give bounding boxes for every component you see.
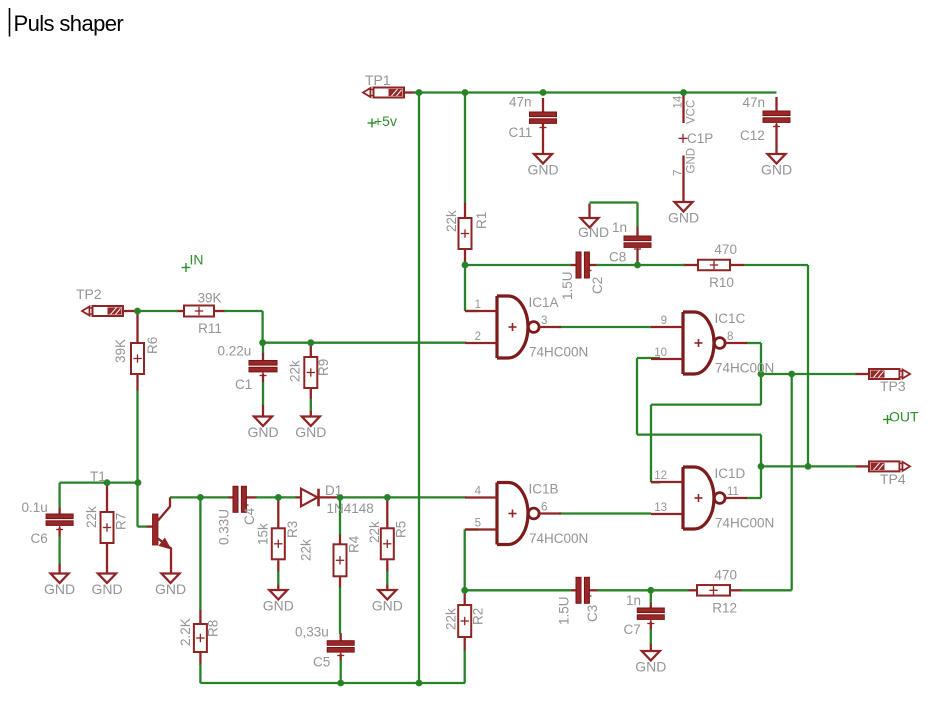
- svg-text:22k: 22k: [84, 506, 99, 528]
- svg-text:8: 8: [727, 331, 733, 343]
- svg-text:470: 470: [714, 242, 737, 257]
- svg-text:22k: 22k: [299, 539, 314, 561]
- svg-text:GND: GND: [91, 581, 122, 597]
- svg-text:0,33u: 0,33u: [295, 625, 329, 640]
- svg-text:GND: GND: [686, 148, 698, 174]
- svg-text:GND: GND: [295, 424, 326, 440]
- svg-text:GND: GND: [635, 659, 666, 675]
- svg-text:74HC00N: 74HC00N: [529, 531, 588, 546]
- svg-text:IC1A: IC1A: [529, 295, 559, 310]
- svg-text:R3: R3: [285, 521, 300, 538]
- svg-text:TP2: TP2: [76, 286, 102, 302]
- svg-text:C1P: C1P: [687, 131, 713, 146]
- svg-text:470: 470: [714, 568, 737, 583]
- svg-text:OUT: OUT: [889, 409, 919, 425]
- svg-text:GND: GND: [761, 162, 792, 178]
- svg-text:7: 7: [673, 170, 685, 176]
- svg-text:0.33U: 0.33U: [217, 509, 232, 545]
- svg-text:R12: R12: [712, 601, 737, 616]
- svg-text:GND: GND: [527, 162, 558, 178]
- svg-text:C12: C12: [740, 128, 765, 143]
- svg-text:R7: R7: [114, 513, 129, 530]
- svg-text:14: 14: [673, 95, 685, 108]
- svg-text:IC1B: IC1B: [529, 482, 559, 497]
- svg-text:GND: GND: [247, 424, 278, 440]
- svg-text:R6: R6: [145, 337, 160, 354]
- svg-text:C8: C8: [609, 250, 626, 265]
- svg-text:2: 2: [475, 331, 481, 343]
- svg-text:4: 4: [475, 486, 482, 498]
- svg-text:1n: 1n: [612, 220, 627, 235]
- svg-text:TP3: TP3: [880, 378, 906, 394]
- svg-text:2.2K: 2.2K: [178, 618, 193, 646]
- svg-text:74HC00N: 74HC00N: [529, 345, 588, 360]
- svg-text:1N4148: 1N4148: [327, 501, 374, 516]
- svg-text:Puls shaper: Puls shaper: [14, 11, 124, 36]
- svg-text:R8: R8: [206, 620, 221, 637]
- svg-text:R5: R5: [394, 521, 409, 538]
- svg-text:1.5U: 1.5U: [560, 271, 575, 300]
- svg-text:R2: R2: [471, 608, 486, 625]
- svg-text:11: 11: [727, 486, 739, 498]
- svg-text:22k: 22k: [444, 210, 459, 232]
- svg-text:R4: R4: [347, 535, 362, 553]
- svg-text:C4: C4: [242, 507, 257, 525]
- svg-text:1: 1: [475, 299, 481, 311]
- svg-text:GND: GND: [372, 598, 403, 614]
- svg-text:GND: GND: [578, 224, 609, 240]
- svg-text:C7: C7: [624, 622, 641, 637]
- svg-text:47n: 47n: [743, 95, 766, 110]
- svg-text:C5: C5: [313, 655, 330, 670]
- svg-text:22k: 22k: [288, 360, 303, 382]
- svg-text:12: 12: [654, 470, 667, 482]
- svg-text:GND: GND: [44, 581, 75, 597]
- svg-text:GND: GND: [263, 598, 294, 614]
- svg-text:GND: GND: [155, 581, 186, 597]
- svg-text:74HC00N: 74HC00N: [715, 516, 774, 531]
- svg-text:15k: 15k: [256, 523, 271, 545]
- svg-text:0.1u: 0.1u: [22, 500, 48, 515]
- svg-text:IC1D: IC1D: [715, 466, 746, 481]
- svg-text:6: 6: [541, 502, 547, 514]
- svg-text:13: 13: [654, 502, 667, 514]
- svg-text:D1: D1: [325, 483, 342, 498]
- svg-text:C2: C2: [590, 277, 605, 294]
- svg-text:C3: C3: [585, 605, 600, 622]
- svg-text:+5v: +5v: [374, 113, 397, 129]
- svg-text:C11: C11: [509, 125, 533, 140]
- svg-text:C1: C1: [235, 377, 252, 392]
- svg-text:GND: GND: [668, 210, 699, 226]
- svg-text:R11: R11: [198, 321, 222, 336]
- svg-text:R9: R9: [316, 359, 331, 376]
- svg-text:10: 10: [654, 347, 667, 359]
- svg-text:22k: 22k: [444, 608, 459, 630]
- svg-text:IN: IN: [190, 252, 204, 268]
- svg-text:R1: R1: [474, 212, 489, 229]
- svg-text:VCC: VCC: [686, 100, 698, 124]
- svg-text:R10: R10: [709, 275, 734, 290]
- svg-text:22k: 22k: [367, 521, 382, 543]
- svg-text:TP1: TP1: [365, 72, 391, 88]
- svg-text:74HC00N: 74HC00N: [715, 361, 774, 376]
- svg-text:IC1C: IC1C: [715, 311, 746, 326]
- svg-text:TP4: TP4: [880, 471, 906, 487]
- svg-text:5: 5: [475, 518, 481, 530]
- svg-text:0.22u: 0.22u: [218, 344, 252, 359]
- svg-text:39K: 39K: [197, 291, 221, 306]
- svg-text:T1: T1: [90, 469, 106, 484]
- svg-text:39K: 39K: [113, 339, 128, 363]
- svg-text:C6: C6: [31, 531, 48, 546]
- svg-text:1.5U: 1.5U: [557, 596, 572, 625]
- svg-text:47n: 47n: [509, 95, 532, 110]
- svg-text:3: 3: [541, 315, 547, 327]
- svg-text:1n: 1n: [626, 593, 641, 608]
- svg-text:9: 9: [661, 315, 667, 327]
